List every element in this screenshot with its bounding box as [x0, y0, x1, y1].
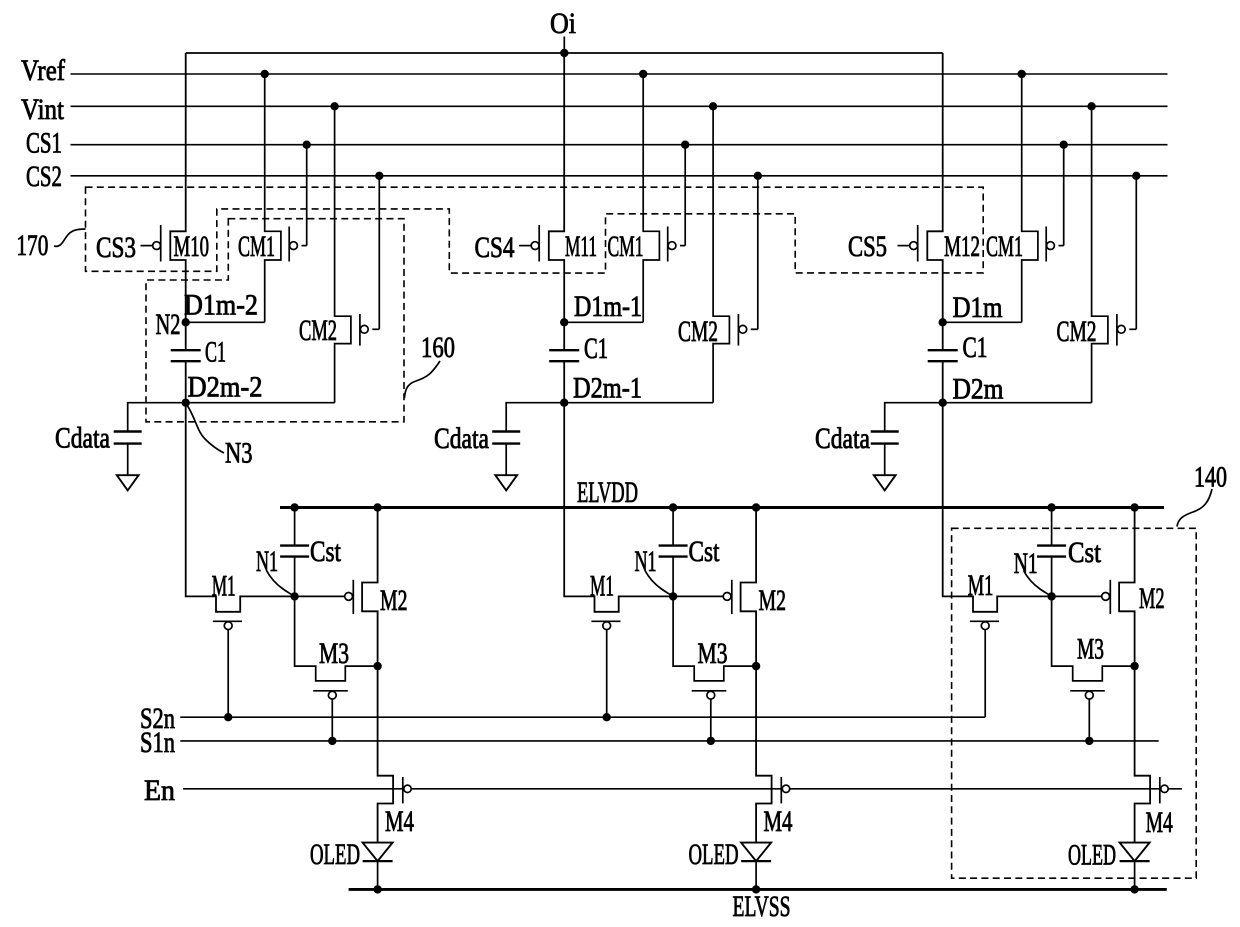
svg-text:M2: M2 [759, 584, 787, 617]
svg-text:D2m-1: D2m-1 [573, 372, 642, 405]
svg-text:M2: M2 [1139, 582, 1165, 615]
svg-text:CS4: CS4 [475, 231, 515, 264]
svg-text:Cst: Cst [1068, 536, 1102, 569]
svg-text:En: En [144, 774, 175, 807]
svg-text:CM2: CM2 [678, 315, 718, 348]
svg-text:M4: M4 [1146, 806, 1173, 839]
svg-text:C1: C1 [584, 332, 608, 365]
svg-text:N3: N3 [225, 437, 253, 470]
svg-text:CM1: CM1 [986, 230, 1023, 263]
svg-text:CM2: CM2 [299, 314, 337, 347]
svg-text:Cst: Cst [310, 535, 342, 568]
svg-text:M1: M1 [590, 570, 614, 603]
svg-text:160: 160 [421, 331, 455, 364]
svg-text:M2: M2 [380, 584, 408, 617]
svg-text:D1m: D1m [953, 291, 1003, 324]
svg-text:S1n: S1n [140, 726, 175, 759]
svg-text:Cdata: Cdata [55, 422, 110, 455]
svg-text:M1: M1 [212, 570, 236, 603]
svg-text:CS1: CS1 [26, 127, 62, 160]
svg-text:OLED: OLED [1068, 839, 1116, 872]
svg-text:CM1: CM1 [238, 230, 275, 263]
svg-text:CM1: CM1 [608, 230, 644, 263]
svg-text:D1m-1: D1m-1 [574, 290, 642, 323]
svg-text:Cdata: Cdata [815, 422, 870, 455]
svg-text:Oi: Oi [550, 7, 576, 40]
svg-text:D2m-2: D2m-2 [188, 371, 263, 404]
svg-text:M4: M4 [385, 805, 414, 838]
svg-text:M3: M3 [1077, 633, 1104, 666]
svg-text:M10: M10 [174, 230, 210, 263]
svg-text:ELVSS: ELVSS [733, 890, 791, 923]
svg-text:Vint: Vint [21, 93, 65, 126]
svg-text:D2m: D2m [953, 373, 1004, 406]
svg-text:M3: M3 [698, 637, 728, 670]
svg-text:OLED: OLED [689, 838, 739, 871]
svg-text:ELVDD: ELVDD [577, 476, 638, 509]
svg-text:N1: N1 [256, 545, 278, 578]
svg-text:N2: N2 [156, 308, 181, 341]
svg-text:Vref: Vref [21, 54, 65, 87]
svg-text:Cst: Cst [689, 535, 721, 568]
svg-text:N1: N1 [1014, 547, 1038, 580]
svg-text:D1m-2: D1m-2 [184, 289, 258, 322]
svg-text:M11: M11 [565, 230, 597, 263]
svg-text:CM2: CM2 [1057, 315, 1097, 348]
svg-text:CS5: CS5 [848, 230, 887, 263]
svg-text:170: 170 [16, 229, 48, 262]
svg-text:M3: M3 [319, 637, 349, 670]
svg-text:CS2: CS2 [26, 160, 62, 193]
svg-text:M1: M1 [968, 569, 994, 602]
svg-text:CS3: CS3 [96, 231, 136, 264]
svg-text:C1: C1 [205, 336, 226, 369]
svg-text:Cdata: Cdata [434, 422, 489, 455]
svg-text:140: 140 [1194, 461, 1227, 494]
svg-text:OLED: OLED [310, 838, 360, 871]
svg-text:C1: C1 [963, 331, 988, 364]
svg-text:M4: M4 [764, 805, 793, 838]
svg-text:N1: N1 [635, 545, 657, 578]
svg-text:M12: M12 [944, 230, 980, 263]
